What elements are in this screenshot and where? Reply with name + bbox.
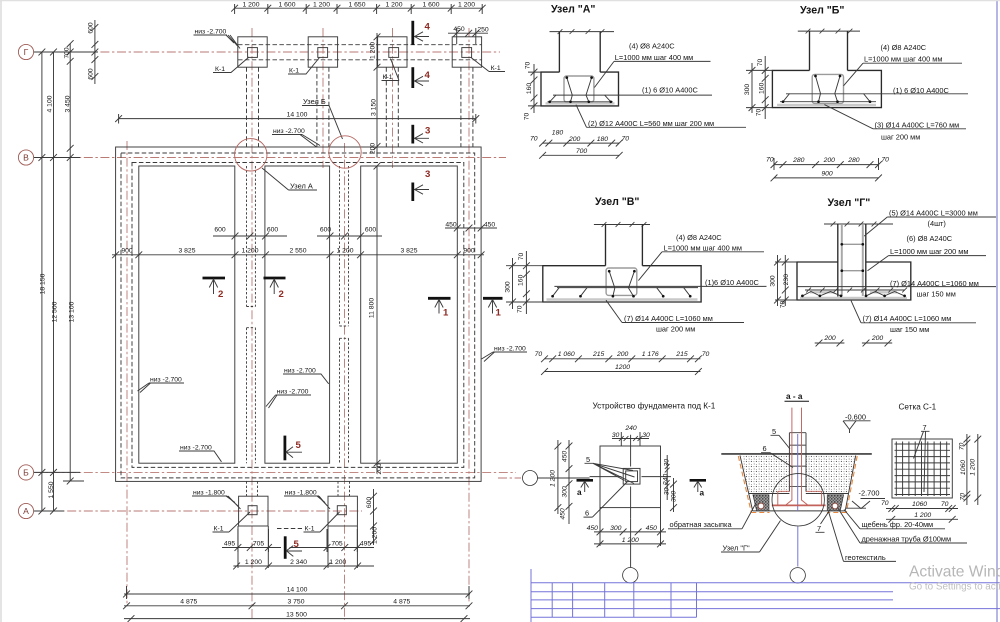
axis extension ticks at В — [34, 154, 80, 161]
svg-text:450: 450 — [560, 508, 567, 520]
section flag 5 bottom — [285, 536, 302, 559]
svg-text:низ -2.700: низ -2.700 — [273, 128, 305, 135]
svg-text:705: 705 — [331, 541, 343, 548]
svg-text:240: 240 — [663, 474, 670, 487]
uzel G bottom dim 200 left — [815, 335, 845, 347]
dim 450/450 right wall — [445, 221, 497, 231]
svg-text:300: 300 — [770, 275, 777, 287]
a-a bottom grid circle — [790, 568, 805, 583]
svg-text:200: 200 — [370, 143, 377, 155]
uzel A dim 700 — [539, 148, 622, 159]
svg-text:14 100: 14 100 — [287, 587, 308, 594]
svg-text:160: 160 — [526, 83, 533, 95]
svg-text:(5) Ø14 А400С L=3000 мм: (5) Ø14 А400С L=3000 мм — [889, 208, 978, 217]
uzel B bottom dim chain 70/280/200/280/70 — [766, 157, 889, 170]
svg-text:7: 7 — [817, 524, 821, 533]
svg-text:4: 4 — [425, 22, 431, 33]
svg-text:1 200: 1 200 — [372, 527, 379, 544]
label niz -2.700 above plan — [272, 128, 320, 147]
svg-text:1 200: 1 200 — [245, 559, 262, 566]
svg-text:-2.700: -2.700 — [859, 489, 880, 498]
svg-text:215: 215 — [592, 351, 605, 358]
svg-text:600: 600 — [88, 68, 95, 80]
uzel A footing outline — [541, 72, 619, 106]
a-a label 7 — [816, 509, 831, 533]
section flag 4 upper — [413, 21, 431, 45]
label niz -2.700 right outside — [482, 346, 528, 362]
svg-text:200: 200 — [568, 136, 581, 143]
label niz -2.700 room2 right — [283, 368, 329, 384]
svg-text:щебень фр. 20-40мм: щебень фр. 20-40мм — [862, 520, 934, 529]
uzel A circle 2 — [329, 136, 361, 168]
svg-text:70: 70 — [780, 301, 787, 309]
svg-text:L=1000 мм шаг 400 мм: L=1000 мм шаг 400 мм — [864, 55, 942, 64]
svg-text:К-1: К-1 — [383, 74, 393, 81]
dim row 4875/3750/4875 — [123, 599, 472, 610]
svg-text:30: 30 — [664, 488, 671, 496]
k1 detail centerlines — [590, 435, 671, 519]
label niz -2.700 room2 left — [266, 389, 311, 409]
svg-text:низ -2.700: низ -2.700 — [195, 29, 227, 36]
uzel B dim 900 — [771, 170, 882, 181]
svg-text:(2) Ø12 А400С L=560 мм шаг 20: (2) Ø12 А400С L=560 мм шаг 200 мм — [588, 119, 714, 128]
a-a label 6 — [761, 444, 793, 467]
uzel G label (7) lower — [851, 301, 976, 334]
svg-text:шаг 150 мм: шаг 150 мм — [890, 325, 929, 334]
svg-text:-0.600: -0.600 — [845, 412, 866, 421]
grid bubble Б — [18, 465, 33, 480]
a-a backfill bottom lines — [749, 493, 849, 495]
svg-text:а - а: а - а — [786, 392, 803, 401]
svg-text:1 200: 1 200 — [458, 2, 475, 9]
svg-text:4 100: 4 100 — [47, 95, 54, 112]
svg-text:70: 70 — [622, 136, 630, 143]
small dim 200 at top band — [370, 143, 377, 155]
a-a excavation soil hatch — [742, 456, 856, 494]
svg-text:1060: 1060 — [960, 460, 967, 475]
svg-text:1 200: 1 200 — [370, 42, 377, 59]
uzel G footing outline — [797, 262, 911, 300]
svg-text:3: 3 — [425, 169, 430, 180]
svg-text:К-1: К-1 — [215, 66, 225, 73]
dim 14100 upper — [115, 112, 479, 124]
svg-text:240: 240 — [624, 425, 637, 432]
uzel B footing outline — [772, 70, 881, 107]
svg-text:(7) Ø14 А400С L=1060 мм: (7) Ø14 А400С L=1060 мм — [890, 279, 979, 288]
bottom footing dashed stubs — [247, 481, 350, 496]
svg-text:(4шт): (4шт) — [928, 219, 946, 228]
svg-text:Activate Windo: Activate Windo — [909, 564, 1000, 581]
uzel G column break line — [824, 222, 893, 227]
svg-text:низ -1.800: низ -1.800 — [193, 490, 225, 497]
k1 bottom dim 1200 — [594, 537, 666, 547]
svg-text:200: 200 — [823, 335, 836, 342]
axis centerline x=344.5 middle strip — [344, 143, 346, 620]
uzel V mesh strip — [547, 298, 698, 300]
uzel G bottom bars zigzag — [802, 292, 904, 296]
uzel B bent bars — [780, 76, 876, 102]
svg-text:450: 450 — [445, 221, 457, 228]
uzel B wall break line — [798, 29, 860, 34]
svg-text:30: 30 — [642, 432, 650, 439]
a-a gravel block right — [827, 495, 843, 511]
dim row 495/705 705/495 — [222, 529, 374, 552]
svg-text:495: 495 — [360, 541, 372, 548]
svg-text:70: 70 — [881, 500, 889, 507]
svg-text:Узел Б: Узел Б — [303, 97, 326, 106]
svg-text:1060: 1060 — [912, 501, 927, 508]
svg-text:1 176: 1 176 — [642, 351, 659, 358]
svg-text:1200: 1200 — [615, 364, 630, 371]
uzel G inner bar segments — [810, 291, 897, 293]
svg-text:3 750: 3 750 — [287, 599, 304, 606]
svg-text:1 600: 1 600 — [422, 2, 439, 9]
svg-text:1 200: 1 200 — [914, 512, 931, 519]
setka grid horizontals — [895, 444, 951, 495]
grid bubble Г — [18, 44, 33, 59]
svg-text:1 200: 1 200 — [313, 2, 330, 9]
uzel A rebar dots — [548, 76, 612, 103]
section flag 2 left — [203, 278, 226, 300]
axis extension ticks at Б — [34, 469, 80, 476]
uzel G column rebars gray — [842, 225, 863, 296]
uzel V stirrup — [606, 268, 637, 295]
a-a red footing outline — [778, 491, 822, 505]
svg-text:3 450: 3 450 — [65, 95, 72, 112]
section flag 5 middle — [285, 436, 302, 461]
uzel V bar dots — [551, 270, 691, 298]
uzel V bottom dim chain 70/1060/215/200/1176/215/70 — [535, 351, 710, 362]
a-a label obratnaya zasypka — [668, 503, 756, 529]
uzel B label (3) — [824, 105, 966, 142]
setka outer frame — [892, 439, 952, 498]
svg-text:3 825: 3 825 — [178, 247, 195, 254]
svg-text:геотекстиль: геотекстиль — [845, 553, 886, 562]
footing K-1 top 4 — [452, 37, 481, 67]
svg-text:450: 450 — [587, 525, 599, 532]
svg-text:70: 70 — [881, 157, 889, 164]
uzel B wall — [810, 31, 848, 70]
svg-text:(1) 6 Ø10 А400С: (1) 6 Ø10 А400С — [642, 86, 699, 95]
svg-text:1 200: 1 200 — [241, 247, 258, 254]
label K-1 footing3 — [382, 59, 400, 82]
axis line Г — [34, 51, 500, 53]
a-a red footing bottom strip — [772, 504, 826, 506]
a-a column red lines — [792, 408, 802, 501]
a-a level mark -2.700 — [852, 489, 885, 509]
uzel G mesh strip — [800, 297, 907, 299]
uzel A bottom dim chain 70/180/200/180/70 — [530, 130, 629, 147]
a-a label drenazhnaya truba — [838, 508, 968, 544]
svg-text:200: 200 — [376, 463, 383, 475]
svg-text:2: 2 — [279, 289, 284, 300]
svg-text:низ -2.700: низ -2.700 — [284, 368, 316, 375]
svg-text:600: 600 — [214, 227, 226, 234]
uzel B label (4) — [844, 43, 963, 86]
uzel A label (4) — [594, 42, 710, 88]
svg-text:450: 450 — [453, 26, 465, 33]
svg-text:(3) Ø14 А400С L=760 мм: (3) Ø14 А400С L=760 мм — [875, 120, 960, 129]
uzel G slashed bar line — [805, 288, 907, 293]
svg-text:70: 70 — [525, 62, 532, 70]
svg-text:2 340: 2 340 — [290, 559, 307, 566]
uzel A bottom bar — [548, 95, 613, 102]
setka right dim chain 1200 — [970, 434, 982, 505]
label K-1 bottom1 — [213, 512, 251, 533]
svg-text:4 875: 4 875 — [393, 599, 410, 606]
dim 14100 bottom — [123, 586, 472, 599]
setka grid verticals — [896, 442, 946, 497]
dim 13500 bottom — [124, 611, 470, 622]
uzel A left dim chain 70/160/70 — [524, 62, 542, 121]
axis centerline x=323 footing 2 — [322, 28, 324, 168]
a-a level mark -0.600 — [843, 412, 871, 433]
k1 bottom dims 450/300/450 — [587, 508, 666, 546]
svg-text:Узел "Г": Узел "Г" — [828, 197, 871, 209]
svg-text:2: 2 — [218, 289, 223, 300]
svg-text:300: 300 — [505, 281, 512, 293]
svg-text:1 650: 1 650 — [348, 2, 365, 9]
svg-text:4 875: 4 875 — [180, 599, 197, 606]
svg-text:1: 1 — [496, 308, 502, 319]
svg-text:180: 180 — [597, 136, 609, 143]
section flag 1 right — [483, 298, 503, 318]
svg-text:900: 900 — [121, 247, 133, 254]
label K-1 footing2 — [288, 58, 320, 75]
uzel G label (6) — [868, 234, 987, 271]
dim 600/600 strip B — [317, 227, 382, 240]
svg-text:70: 70 — [756, 109, 763, 117]
uzel G left dim chain 230/70 — [780, 255, 790, 308]
svg-text:низ -2.700: низ -2.700 — [277, 389, 309, 396]
uzel G label (7) upper leader — [797, 279, 996, 298]
k1 right dim chain 30/240/30 — [663, 455, 671, 500]
svg-text:900: 900 — [821, 170, 833, 177]
uzel V left dim chain 70/160/70 — [517, 251, 530, 314]
label K-1 footing4 — [471, 58, 505, 73]
svg-text:5: 5 — [772, 427, 776, 436]
svg-text:6: 6 — [763, 444, 767, 453]
svg-text:160: 160 — [759, 82, 766, 94]
svg-text:Сетка С-1: Сетка С-1 — [899, 403, 937, 412]
svg-text:230: 230 — [783, 274, 790, 286]
svg-text:L=1000 мм шаг 400 мм: L=1000 мм шаг 400 мм — [664, 243, 742, 252]
dim line 700 / 3450 / 13100 — [63, 40, 84, 484]
svg-text:5: 5 — [296, 440, 302, 451]
top dim row 1200/1600/1200/1650/1200/1600/1200 — [231, 2, 485, 14]
uzel A label (1) leader — [553, 86, 712, 96]
uzel V label (7) — [606, 300, 744, 333]
uzel A bent bars — [567, 78, 592, 102]
a-a label 5 — [771, 427, 791, 449]
uzel G bottom dim 200 right — [862, 335, 892, 347]
a-a gravel block left — [753, 495, 769, 511]
k1 right dim chain 300 — [670, 478, 677, 512]
a-a excavation bottom line — [753, 508, 866, 511]
svg-text:1 550: 1 550 — [48, 481, 55, 498]
svg-text:600: 600 — [365, 227, 377, 234]
a-a orange slope dashes — [738, 456, 857, 513]
axis extension ticks at Г — [34, 49, 98, 56]
svg-text:600: 600 — [320, 227, 332, 234]
svg-text:2 550: 2 550 — [289, 247, 306, 254]
svg-text:180: 180 — [552, 130, 564, 137]
svg-text:18 150: 18 150 — [40, 273, 47, 294]
svg-text:низ -1.800: низ -1.800 — [285, 490, 317, 497]
svg-text:4: 4 — [425, 70, 431, 81]
middle dim row 900/3825/1200/2550/1200/3825/900 — [112, 247, 485, 258]
a-a blue axis line lower — [797, 527, 799, 567]
svg-text:1 200: 1 200 — [242, 2, 259, 9]
svg-text:7: 7 — [923, 423, 927, 432]
uzel A wall break line — [550, 29, 615, 34]
svg-text:300: 300 — [562, 486, 569, 498]
grid bubble В — [18, 150, 33, 165]
dim 450/250 at footing4 — [448, 26, 489, 44]
svg-text:600: 600 — [366, 497, 373, 509]
svg-text:1 200: 1 200 — [550, 470, 557, 487]
uzel G left dim chain 300 — [770, 255, 781, 306]
uzel G column outline — [838, 224, 866, 297]
svg-text:3 825: 3 825 — [400, 247, 417, 254]
svg-text:5: 5 — [586, 455, 590, 464]
svg-text:(7) Ø14 А400С L=1060 мм: (7) Ø14 А400С L=1060 мм — [624, 314, 713, 323]
svg-text:шаг 200 мм: шаг 200 мм — [656, 325, 695, 334]
svg-text:Узел "А": Узел "А" — [551, 4, 595, 16]
axis centerline x=392.5 footing 3 — [392, 28, 394, 168]
svg-text:30: 30 — [612, 432, 620, 439]
svg-text:11 800: 11 800 — [369, 298, 376, 319]
svg-text:280: 280 — [792, 157, 805, 164]
a-a label geotextil — [829, 512, 897, 562]
svg-text:а: а — [700, 489, 705, 498]
grid bubble А — [18, 503, 33, 518]
svg-text:70: 70 — [535, 351, 543, 358]
room 3 outline — [361, 166, 458, 463]
svg-text:низ -2.700: низ -2.700 — [150, 377, 182, 384]
a-a column ladder rungs — [790, 445, 806, 486]
k1 left dim chain 450/300/450 — [560, 440, 573, 524]
k1 grid circle left — [523, 471, 590, 486]
svg-text:1 200: 1 200 — [385, 2, 402, 9]
svg-text:250: 250 — [477, 26, 489, 33]
slab dashed offset contour inner — [132, 163, 464, 468]
dim row 1200/2340/1200 — [233, 559, 374, 569]
vertical dim 1200 / 3150 at footing 3 — [370, 33, 381, 158]
svg-text:200: 200 — [616, 351, 629, 358]
dim line 600/600 near Г — [88, 20, 99, 84]
axis line Б — [34, 471, 516, 473]
svg-text:1 200: 1 200 — [329, 559, 346, 566]
uzel V bent bars — [609, 271, 634, 296]
svg-text:1 200: 1 200 — [336, 247, 353, 254]
a-a stakan top cap — [789, 432, 806, 434]
svg-text:13 500: 13 500 — [286, 611, 307, 618]
svg-text:215: 215 — [675, 351, 688, 358]
section flag 1 left — [428, 298, 451, 318]
a-a label scheben — [844, 510, 945, 530]
svg-text:(1)6 Ø10 А400С: (1)6 Ø10 А400С — [705, 278, 759, 287]
uzel V label (4) — [638, 233, 764, 281]
section flag 3 lower — [413, 169, 431, 201]
svg-text:1 600: 1 600 — [278, 2, 295, 9]
small dim 200 at bottom band — [376, 463, 383, 475]
label Uzel B with leader — [302, 97, 343, 139]
title a-a — [785, 392, 810, 401]
footing K-1 top 3 — [378, 37, 407, 67]
svg-text:6: 6 — [585, 509, 589, 518]
uzel V footing outline — [543, 266, 701, 302]
a-a white column strip — [789, 455, 806, 494]
svg-text:Устройство фундамента под К-1: Устройство фундамента под К-1 — [593, 402, 716, 411]
svg-text:14 100: 14 100 — [287, 112, 308, 119]
uzel V label (1) leader — [554, 278, 766, 287]
page right window edge (blue) — [996, 0, 998, 622]
uzel B left dim chain 300 — [744, 63, 772, 113]
section flag 3 upper — [413, 125, 431, 144]
label K-1 bottom2 — [277, 512, 340, 533]
k1 section mark a right — [690, 480, 706, 497]
top footing row connecting dashed lines — [238, 45, 482, 60]
k1 axis red dash left of circle — [498, 477, 521, 479]
uzel A circle 1 — [235, 139, 267, 171]
svg-text:а: а — [577, 488, 582, 497]
axis extension ticks at А — [34, 508, 64, 515]
svg-text:450: 450 — [562, 451, 569, 463]
footing K-1 bottom 2 — [328, 496, 357, 526]
label Uzel A with leader — [262, 168, 317, 191]
svg-text:700: 700 — [64, 47, 71, 59]
svg-text:5: 5 — [294, 539, 300, 550]
PLAN_BODY — [115, 21, 527, 482]
svg-text:низ -2.700: низ -2.700 — [494, 346, 526, 353]
room 1 outline — [139, 166, 235, 463]
TABLE_WM — [531, 564, 1000, 622]
footing K-1 top 2 — [308, 37, 337, 67]
svg-text:L=1000 мм шаг 200 мм: L=1000 мм шаг 200 мм — [890, 247, 968, 256]
uzel V mid bar line — [557, 287, 698, 289]
dim 600/600 strip A — [213, 227, 287, 240]
svg-text:L=1000 мм шаг 400 мм: L=1000 мм шаг 400 мм — [615, 53, 693, 62]
svg-text:низ -2.700: низ -2.700 — [180, 445, 212, 452]
k1 label 5 with leader fan — [585, 455, 635, 484]
svg-text:450: 450 — [646, 525, 658, 532]
uzel G bottom bar dots — [801, 295, 906, 298]
svg-text:300: 300 — [610, 525, 622, 532]
uzel V bottom bar anchors — [553, 288, 691, 297]
svg-text:(4) Ø8 А240С: (4) Ø8 А240С — [881, 43, 927, 52]
uzel V left dim chain 300 — [505, 258, 543, 309]
axis centerline x=127 left wall — [126, 141, 128, 604]
svg-text:495: 495 — [224, 541, 236, 548]
svg-text:(4) Ø8 А240С: (4) Ø8 А240С — [676, 233, 722, 242]
uzel B stirrup — [812, 74, 843, 103]
svg-text:70: 70 — [959, 443, 966, 451]
a-a label Uzel G callout — [721, 521, 781, 553]
svg-text:А: А — [23, 506, 29, 516]
svg-text:70: 70 — [757, 59, 764, 67]
svg-text:70: 70 — [766, 157, 774, 164]
uzel B left dim chain 70/160/70 — [756, 56, 769, 119]
svg-text:(7) Ø14 А400С L=1060 мм: (7) Ø14 А400С L=1060 мм — [863, 314, 952, 323]
svg-text:В: В — [23, 153, 29, 163]
uzel B label (1) leader — [786, 86, 968, 95]
svg-text:900: 900 — [463, 247, 475, 254]
a-a uzel G callout circle — [772, 474, 824, 526]
footing bottom dim extension lines — [238, 526, 357, 568]
svg-text:450: 450 — [484, 221, 496, 228]
axis line В — [34, 157, 506, 159]
